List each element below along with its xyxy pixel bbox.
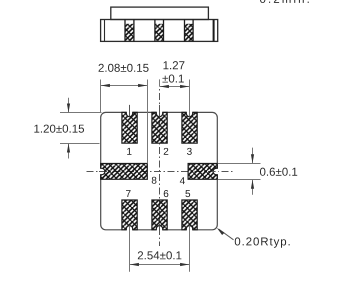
pad 3 [182, 112, 197, 143]
dim 1.20 extension line bottom [60, 143, 100, 145]
pad 4 [188, 164, 217, 180]
outline gap at pad1 notch [126, 111, 133, 113]
dim 0.6 text [260, 168, 297, 176]
dim 1.27 extension line right / pad3 tick [189, 80, 191, 117]
vertical centerline [159, 80, 161, 247]
corner radius leader [219, 229, 234, 240]
outline gap at pad6 notch [156, 229, 163, 231]
side view base [101, 20, 218, 42]
side view left end line [104, 20, 106, 42]
dim 1.20 text [34, 125, 84, 133]
dim 2.54 text [138, 251, 182, 259]
pad 1 tick [129, 105, 131, 117]
side view castellation bar 2 [155, 20, 164, 42]
outline gap at pad5 notch [186, 229, 193, 231]
dim 1.27 tolerance text [162, 74, 183, 82]
side view castellation bar 1 [125, 20, 134, 42]
dim 2.54 extension line right / pad5 tick [189, 226, 191, 272]
side view castellation bar 3 [185, 20, 194, 42]
side view lid [111, 7, 209, 19]
dim 1.20 arrow bottom [68, 144, 70, 159]
outline gap at pad7 notch [126, 229, 133, 231]
dim 2.54 extension line left / pad7 tick [129, 226, 131, 272]
dim 2.08 extension line left [100, 80, 102, 113]
corner radius text [235, 237, 290, 247]
dim 1.27 text [163, 61, 184, 69]
pad 6 [152, 200, 167, 230]
dim 2.08 extension line right [147, 80, 149, 164]
pad 2 [152, 112, 167, 143]
dim 1.27 extension line left segment [159, 80, 161, 87]
dim 0.6 arrow bottom [252, 180, 254, 195]
dim 0.6 extension line top [218, 163, 261, 165]
pad 8 notch centerline segment [99, 171, 102, 173]
pad 6 notch tick [159, 226, 161, 233]
pin label 1 [127, 148, 131, 155]
outline gap at pad4 notch [216, 168, 218, 174]
pin label 7 [126, 190, 131, 197]
pad 7 [122, 200, 137, 230]
pad 5 [182, 200, 197, 230]
pad 4 notch centerline segment [212, 171, 216, 173]
pin label 8 [152, 177, 157, 184]
outline gap at pad3 notch [186, 111, 193, 113]
dim 0.6 arrow top [252, 148, 254, 163]
package outline [101, 112, 218, 229]
outline gap at pad8 notch [100, 168, 102, 174]
dim 1.20 arrow top [68, 98, 70, 112]
pin label 3 [187, 148, 192, 155]
pin label 6 [164, 190, 169, 197]
dim 1.20 extension line top [60, 112, 102, 114]
pin label 4 [180, 177, 185, 184]
side view right end line [213, 20, 215, 42]
dim 2.54 dimension line [130, 264, 190, 266]
pin label 2 [164, 148, 169, 155]
dim 2.08 dimension line [101, 85, 148, 87]
clipped annotation text top right [260, 0, 309, 3]
dim 1.27 dimension line [160, 86, 190, 88]
pad 1 [122, 112, 137, 143]
pad 8 [101, 164, 148, 180]
dim 0.6 extension line bottom [218, 179, 261, 181]
pin label 5 [185, 190, 190, 197]
dim 2.08 text [99, 64, 149, 72]
horizontal centerline [87, 171, 234, 173]
pad 2 tick [159, 105, 161, 117]
outline gap at pad2 notch [156, 111, 163, 113]
